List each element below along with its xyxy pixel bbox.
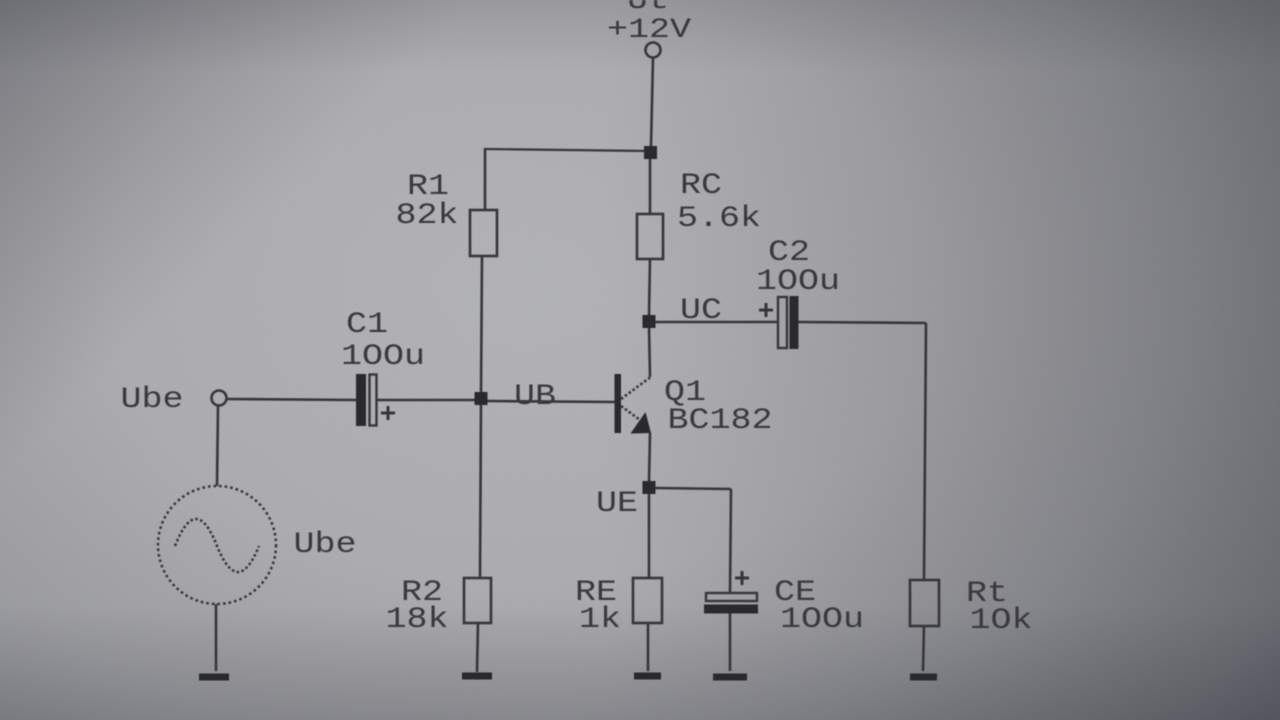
wire node UE right [654,488,731,489]
resistor Rt [910,580,939,626]
wire top horizontal to R1 branch [485,149,648,151]
source sine wave [175,519,259,572]
wire Vcc terminal to junction [651,58,653,146]
capacitor C1 plates [356,374,377,426]
wire down to CE [730,489,731,593]
wire R1 top [484,148,487,210]
ground source [199,674,229,681]
node junction Vcc [644,146,657,159]
node UC [643,315,656,328]
wire C1 to node UB [377,399,476,402]
capacitor C1 polarity + [381,406,395,420]
node UE [643,481,656,494]
wire C2 to right rail [798,322,926,323]
wire emitter down to node UE [649,433,650,482]
wire RC to node UC [649,259,650,316]
wire Ube terminal down to source [217,406,218,486]
capacitor CE plates [704,593,758,614]
capacitor C2 plates [778,296,799,349]
transistor Q1 base bar [615,374,622,433]
wire CE to ground [729,613,732,671]
terminal Ube [212,391,227,406]
resistor RC [637,214,663,259]
wire source to ground [215,604,218,671]
wire right rail down to Rt [924,323,926,580]
capacitor CE polarity + [735,571,749,585]
wire R2 to ground [477,623,478,672]
wire node UE to RE [648,493,651,578]
capacitor C2 polarity + [759,303,773,317]
wire Ube terminal to C1 [226,399,357,400]
wire Rt to ground [923,626,924,671]
ground CE [713,674,747,681]
wire node UC to C2 [654,321,778,324]
terminal Ut [646,43,661,58]
wire base [487,401,615,402]
resistor R1 [470,210,497,256]
wire node UB to R2 [480,403,481,578]
ground R2 [462,673,492,680]
resistor R2 [464,578,491,623]
ground RE [634,673,661,680]
source Ube circle [158,486,276,604]
ground Rt [910,674,937,681]
transistor Q1 collector stroke [621,378,650,400]
transistor Q1 emitter arrow [631,412,652,434]
wire R1 bottom to node UB [481,256,482,394]
wire RE to ground [647,623,650,671]
resistor RE [633,578,662,623]
wire node UC to collector [649,326,650,377]
node UB [475,392,488,405]
transistor Q1 emitter stroke [621,406,640,420]
wire junction to RC [649,159,652,214]
